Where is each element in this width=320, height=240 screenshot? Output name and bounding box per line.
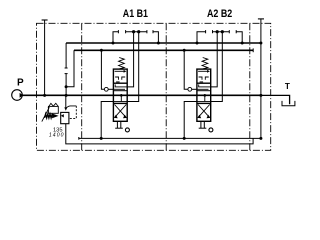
V2 centre closed port bbox=[204, 95, 206, 101]
V1 closed ports pos-a bbox=[115, 77, 118, 80]
bridge valve2 (A2 B2 header) bbox=[197, 32, 206, 43]
svg-text:T: T bbox=[285, 82, 290, 91]
gallery lower left drop bbox=[66, 50, 74, 87]
relief drain bbox=[66, 124, 253, 144]
port P label bbox=[17, 78, 24, 89]
RV1 setting 1400 bbox=[49, 132, 64, 138]
T line to tank bbox=[261, 95, 290, 104]
tank return gallery bbox=[78, 137, 80, 140]
work line B2 bbox=[211, 32, 223, 102]
V2 position-a arrow bbox=[198, 70, 208, 72]
valve1 inlet orifice circle bbox=[104, 87, 108, 91]
main open-center line P to T bbox=[22, 94, 261, 96]
V2 closed ports mid bbox=[198, 86, 210, 88]
svg-text:A2 B2: A2 B2 bbox=[207, 8, 232, 20]
flow triangle at P bbox=[20, 93, 24, 98]
spool valve V1 body bbox=[113, 69, 127, 121]
bridge valve1 (A1 B1 header) bbox=[113, 32, 118, 43]
RV1 pilot line bbox=[66, 106, 77, 109]
parallel gallery upper bbox=[66, 42, 261, 44]
A2 B2 labels bbox=[207, 8, 232, 20]
RV1 adjust arrow bbox=[42, 107, 50, 121]
gauge port left (plugged) bbox=[42, 19, 48, 21]
RV1 internal arrow bbox=[61, 114, 64, 117]
work line A1 bbox=[127, 32, 133, 87]
tank symbol bbox=[282, 101, 295, 106]
V2 lever operator bbox=[200, 121, 202, 128]
relief valve RV1 body bbox=[61, 112, 69, 123]
end gallery dot bbox=[259, 42, 262, 45]
V1 spring bbox=[119, 58, 125, 70]
valve2 feed riser bbox=[183, 49, 186, 52]
V2 position-b crossed arrows bbox=[198, 105, 209, 117]
gallery upper left drop with plug break bbox=[65, 43, 67, 68]
valve1 feed riser bbox=[100, 49, 103, 52]
RV1 setting 135 bbox=[53, 127, 63, 133]
section divider 3 bbox=[249, 23, 251, 150]
svg-text:P: P bbox=[17, 78, 24, 89]
V1 closed ports mid bbox=[115, 86, 127, 88]
RV1 spring bbox=[45, 114, 53, 118]
valve2 inlet orifice circle bbox=[188, 87, 192, 91]
enclosure boundary (dash-dot) bbox=[37, 23, 271, 150]
V1 centre closed port bbox=[120, 95, 122, 101]
gauge port right (plugged) bbox=[258, 18, 264, 20]
return riser to T bbox=[260, 43, 262, 138]
svg-text:A1 B1: A1 B1 bbox=[123, 8, 148, 20]
V1 lever operator bbox=[116, 121, 118, 128]
section divider 2 bbox=[165, 23, 167, 150]
spool valve V2 body bbox=[197, 69, 211, 121]
port T label bbox=[285, 82, 290, 91]
relief valve feed from P bbox=[65, 95, 67, 107]
svg-text:1400: 1400 bbox=[49, 132, 64, 138]
V1 position-b crossed arrows bbox=[115, 105, 126, 117]
V2 spring bbox=[202, 58, 208, 70]
gallery lower right plug tick bbox=[252, 48, 254, 52]
work line A2 bbox=[211, 32, 218, 87]
section divider 1 bbox=[81, 23, 83, 150]
RV1 arrow into spring chamber bbox=[52, 114, 59, 119]
V2 closed ports pos-a bbox=[199, 77, 202, 80]
valve1 tank return bbox=[101, 102, 113, 139]
gallery lower (feed) bbox=[74, 49, 253, 51]
RV1 pilot head spring bbox=[49, 103, 58, 106]
valve2 tank return bbox=[184, 102, 197, 139]
pump source circle P bbox=[12, 90, 23, 101]
A1 B1 labels bbox=[123, 8, 148, 20]
RV1 pilot head box bbox=[48, 106, 58, 113]
work line B1 bbox=[127, 32, 139, 102]
V1 position-a arrow bbox=[115, 70, 125, 72]
